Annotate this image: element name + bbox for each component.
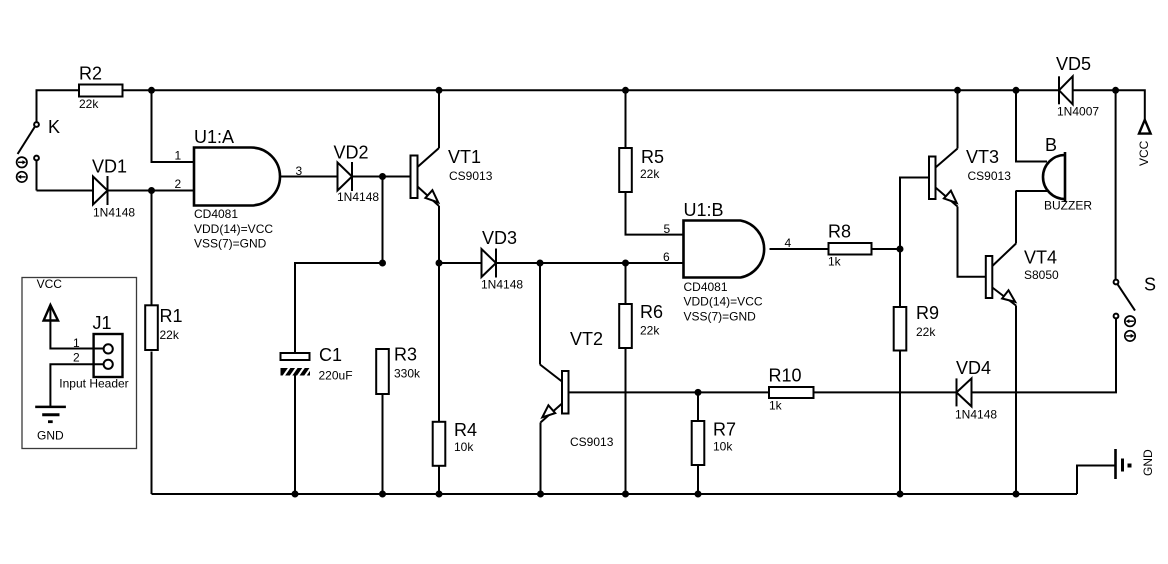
svg-text:6: 6 (663, 250, 670, 264)
svg-text:CS9013: CS9013 (968, 169, 1012, 183)
svg-text:GND: GND (37, 429, 64, 443)
resistor R4 (433, 420, 477, 466)
transistor VT2 CS9013 (540, 263, 614, 494)
wire J1 pin2 to ground (50, 364, 103, 406)
svg-text:1: 1 (73, 336, 80, 350)
wire VT2 base / R7 / R10 / VD4 net (569, 391, 770, 393)
svg-text:VT2: VT2 (570, 329, 603, 349)
svg-text:R10: R10 (769, 366, 802, 386)
wire junction down to R3 (382, 177, 384, 264)
resistor R10 (769, 366, 814, 413)
svg-text:22k: 22k (916, 325, 936, 339)
wire mid net y=263 (295, 263, 383, 353)
svg-text:VDD(14)=VCC: VDD(14)=VCC (684, 295, 763, 309)
svg-text:10k: 10k (713, 440, 733, 454)
wire U1:A output to VD2 (280, 176, 338, 178)
svg-text:R7: R7 (713, 420, 736, 440)
svg-text:VT1: VT1 (448, 147, 481, 167)
diode VD4 1N4148 (955, 358, 997, 422)
wire R10 to VD4 (814, 391, 957, 393)
wire VD1 to U1:A pin 2 (108, 190, 195, 192)
svg-text:10k: 10k (454, 440, 474, 454)
svg-text:22k: 22k (160, 328, 180, 342)
svg-text:J1: J1 (93, 313, 112, 333)
resistor R2 (79, 64, 123, 112)
wire top rail right of VD5 (1073, 90, 1145, 120)
transistor VT3 CS9013 (929, 90, 1011, 276)
svg-text:1N4148: 1N4148 (93, 206, 135, 220)
svg-text:1N4148: 1N4148 (337, 190, 379, 204)
switch S (1114, 90, 1156, 318)
node junction R3 on mid net (379, 260, 386, 267)
ground symbol J1 (35, 407, 66, 443)
svg-text:22k: 22k (640, 324, 660, 338)
resistor R7 (692, 392, 736, 494)
power VCC J1 (37, 277, 104, 349)
wire VT1 emitter to R4 (438, 263, 440, 422)
node junction VD2/R3 (379, 173, 386, 180)
svg-text:VT3: VT3 (966, 147, 999, 167)
wire junction down to R1 (151, 191, 153, 306)
AND gate U1:B CD4081 (684, 200, 765, 324)
diode VD5 1N4007 (1056, 54, 1099, 119)
svg-text:1N4007: 1N4007 (1057, 105, 1099, 119)
wire top rail to U1:A pin 1 (152, 90, 195, 162)
node junction dots on top rail (148, 87, 1119, 94)
svg-text:K: K (48, 117, 60, 137)
AND gate U1:A CD4081 (194, 127, 280, 251)
svg-text:1k: 1k (769, 399, 783, 413)
svg-text:VD3: VD3 (482, 228, 517, 248)
svg-text:VDD(14)=VCC: VDD(14)=VCC (194, 222, 273, 236)
svg-text:22k: 22k (640, 167, 660, 181)
svg-text:5: 5 (664, 222, 671, 236)
svg-text:R6: R6 (640, 302, 663, 322)
svg-text:R9: R9 (916, 303, 939, 323)
wire top rail left segment (37, 90, 80, 122)
transistor VT1 CS9013 (411, 90, 493, 263)
diode VD1 1N4148 (92, 157, 135, 220)
resistor R8 (828, 222, 872, 269)
svg-text:VD5: VD5 (1056, 54, 1091, 74)
svg-text:U1:B: U1:B (684, 200, 724, 220)
connector J1 Input Header (59, 313, 128, 391)
svg-text:VCC: VCC (1137, 140, 1151, 166)
svg-text:1: 1 (175, 149, 182, 163)
svg-text:U1:A: U1:A (194, 127, 234, 147)
resistor R3 (376, 345, 421, 395)
svg-text:1N4148: 1N4148 (955, 408, 997, 422)
svg-text:330k: 330k (394, 367, 421, 381)
J1 input header block box (22, 278, 137, 449)
diode VD3 1N4148 (481, 228, 523, 292)
svg-text:VSS(7)=GND: VSS(7)=GND (684, 310, 757, 324)
node junction VT1 emitter on mid net (436, 260, 443, 267)
switch K (18, 117, 60, 191)
buzzer B (1016, 90, 1093, 212)
svg-text:CD4081: CD4081 (684, 280, 728, 294)
wire R8 to junction (872, 248, 901, 250)
svg-text:1k: 1k (828, 255, 842, 269)
node junction VD1/R1 (148, 187, 155, 194)
wire R1 to bottom rail (151, 352, 153, 495)
svg-text:BUZZER: BUZZER (1044, 199, 1092, 213)
node junction R6 top (622, 260, 629, 267)
svg-text:VT4: VT4 (1024, 248, 1057, 268)
wire switch K to VD1 (37, 190, 94, 192)
wire junction down to R9 (899, 249, 901, 307)
resistor R6 (619, 263, 663, 494)
svg-text:220uF: 220uF (319, 369, 353, 383)
wire VD4 to switch S (972, 319, 1117, 393)
wire R9 to bottom rail (899, 350, 901, 494)
wire C1 to bottom rail (294, 376, 296, 495)
svg-text:B: B (1045, 135, 1057, 155)
diode VD2 1N4148 (334, 143, 380, 205)
svg-text:CD4081: CD4081 (194, 207, 238, 221)
svg-text:VD2: VD2 (334, 143, 369, 163)
wire top rail main (123, 89, 1060, 91)
svg-text:Input Header: Input Header (59, 377, 128, 391)
wire bottom rail (152, 493, 1078, 495)
svg-text:1N4148: 1N4148 (481, 278, 523, 292)
svg-text:C1: C1 (319, 345, 342, 365)
wire R4 to bottom rail (438, 466, 440, 495)
svg-text:S: S (1144, 275, 1156, 295)
svg-text:S8050: S8050 (1024, 268, 1059, 282)
svg-text:R1: R1 (160, 306, 183, 326)
svg-text:R5: R5 (641, 147, 664, 167)
svg-text:VSS(7)=GND: VSS(7)=GND (194, 237, 267, 251)
wire junction up to VT3 base (900, 178, 929, 250)
svg-text:R4: R4 (454, 420, 477, 440)
svg-text:R3: R3 (394, 345, 417, 365)
transistor VT4 S8050 (986, 191, 1059, 494)
node junction R8/R9/VT3 base (897, 246, 904, 253)
svg-text:VD1: VD1 (92, 157, 127, 177)
svg-text:R8: R8 (828, 222, 851, 242)
wire VD2 to VT1 base (352, 176, 411, 178)
resistor R9 (894, 303, 939, 351)
svg-text:GND: GND (1141, 449, 1155, 476)
wire U1:B output to R8 (770, 248, 829, 250)
resistor R5 (619, 90, 683, 234)
wire VD3 to U1:B pin 6 (496, 262, 684, 264)
node junction dots on bottom rail (292, 491, 1020, 498)
switch K actuation arrows (17, 157, 27, 182)
svg-text:2: 2 (73, 350, 80, 364)
svg-text:R2: R2 (79, 64, 102, 84)
svg-text:4: 4 (785, 236, 792, 250)
power VCC right (1137, 120, 1151, 166)
wire VT1 emitter node to VD3 anode (439, 262, 482, 264)
wire R3 to bottom rail (382, 394, 384, 494)
svg-text:VCC: VCC (37, 277, 63, 291)
switch S actuation arrows (1125, 316, 1135, 341)
svg-text:2: 2 (175, 177, 182, 191)
svg-text:VD4: VD4 (956, 358, 991, 378)
svg-text:CS9013: CS9013 (449, 169, 493, 183)
resistor R1 (145, 305, 182, 350)
svg-text:22k: 22k (79, 97, 99, 111)
node junction R7 top (695, 389, 702, 396)
svg-text:CS9013: CS9013 (570, 435, 614, 449)
ground symbol bottom right (1077, 449, 1155, 494)
node junction VT2 collector (537, 260, 544, 267)
capacitor C1 220uF (281, 345, 353, 383)
